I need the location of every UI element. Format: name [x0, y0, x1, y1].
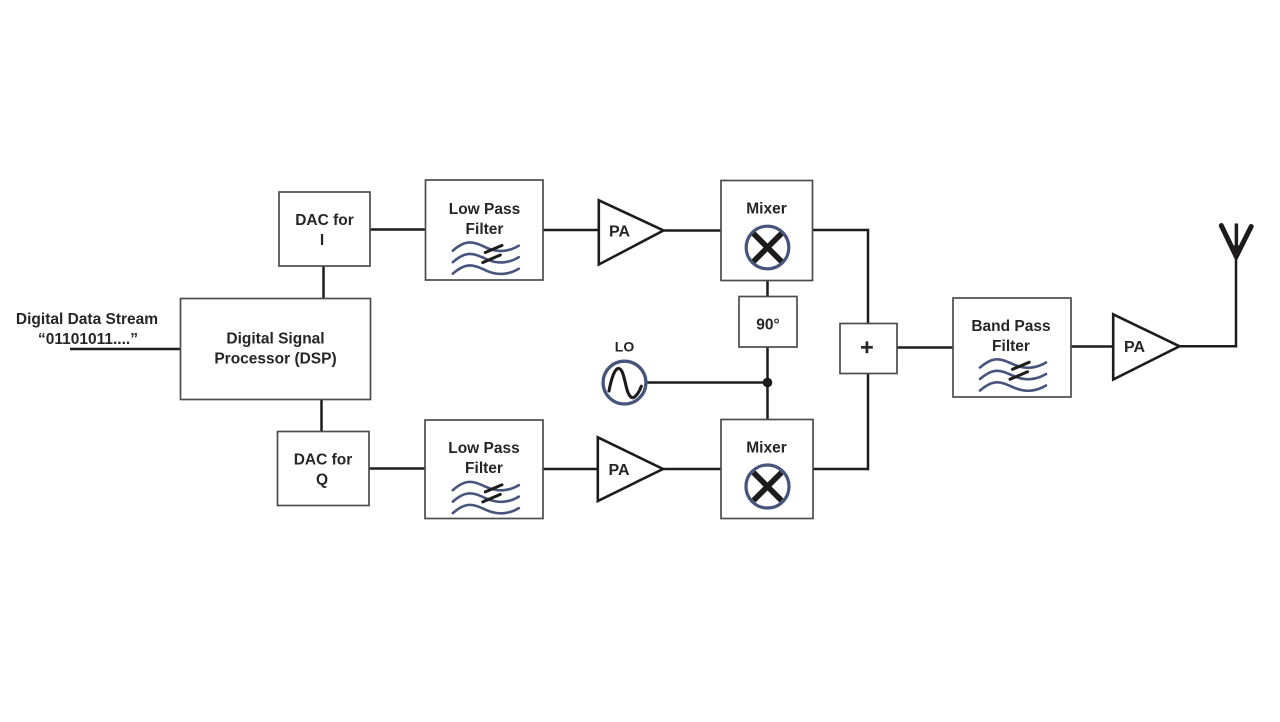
- svg-text:LO: LO: [615, 339, 635, 355]
- svg-text:PA: PA: [609, 224, 630, 241]
- svg-text:Filter: Filter: [466, 221, 504, 238]
- svg-text:Band Pass: Band Pass: [971, 318, 1050, 335]
- svg-text:“01101011....”: “01101011....”: [38, 331, 138, 348]
- svg-text:DAC for: DAC for: [295, 212, 354, 229]
- svg-text:Mixer: Mixer: [746, 201, 787, 218]
- svg-text:Q: Q: [316, 472, 328, 489]
- svg-text:PA: PA: [1124, 339, 1145, 356]
- svg-text:Processor (DSP): Processor (DSP): [214, 351, 336, 368]
- svg-text:Digital Signal: Digital Signal: [226, 331, 324, 348]
- svg-text:I: I: [320, 232, 324, 249]
- svg-text:PA: PA: [608, 462, 629, 479]
- svg-text:Low Pass: Low Pass: [449, 201, 521, 218]
- svg-text:Low Pass: Low Pass: [448, 440, 520, 457]
- svg-text:Digital Data Stream: Digital Data Stream: [16, 311, 158, 328]
- svg-text:Filter: Filter: [992, 338, 1030, 355]
- svg-text:90°: 90°: [756, 317, 779, 334]
- svg-text:DAC for: DAC for: [294, 452, 353, 469]
- svg-text:Mixer: Mixer: [746, 440, 787, 457]
- svg-text:Filter: Filter: [465, 460, 503, 477]
